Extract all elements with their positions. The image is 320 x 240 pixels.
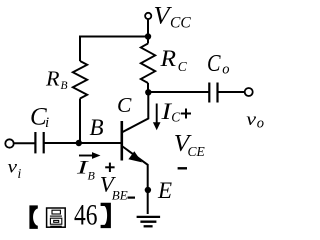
emitter arrowhead: [128, 151, 142, 162]
terminal vi: [5, 139, 13, 147]
svg-text:v: v: [246, 109, 256, 129]
node C junction: [145, 89, 151, 95]
svg-text:CC: CC: [170, 14, 191, 31]
terminal VCC: [145, 13, 151, 19]
svg-text:i: i: [45, 115, 49, 131]
svg-text:BE: BE: [112, 187, 128, 202]
svg-text:B: B: [61, 80, 68, 92]
svg-text:B: B: [90, 115, 104, 140]
node VCC junction: [145, 33, 151, 39]
svg-text:o: o: [257, 115, 264, 131]
svg-text:C: C: [171, 110, 181, 125]
capacitor Co: [208, 83, 210, 103]
wire base: [44, 142, 121, 144]
wire RB bottom lead: [79, 99, 81, 144]
wire emitter branch: [123, 147, 148, 191]
wire RB top lead: [79, 36, 81, 62]
ground: [137, 217, 161, 226]
wire top rail: [80, 36, 148, 38]
caption character tu (figure): [47, 208, 66, 227]
plus sign IC: [181, 109, 191, 119]
svg-text:C: C: [117, 93, 132, 117]
svg-text:R: R: [159, 46, 176, 71]
svg-text:C: C: [207, 51, 221, 77]
resistor RB: [73, 61, 87, 99]
terminal vo: [245, 88, 253, 96]
wire emitter to ground: [147, 190, 149, 214]
svg-text:CE: CE: [188, 144, 206, 159]
wire to vo terminal: [218, 91, 245, 93]
minus sign VCE: [178, 167, 187, 169]
wire RC top lead: [147, 37, 149, 44]
svg-text:B: B: [88, 168, 96, 182]
current arrow IB: [79, 155, 94, 157]
svg-text:o: o: [222, 61, 229, 77]
capacitor Ci: [34, 132, 36, 153]
caption bracket right: [101, 203, 111, 228]
resistor RC: [141, 44, 155, 84]
svg-text:v: v: [8, 157, 18, 177]
svg-text:C: C: [178, 59, 188, 74]
transistor Q1 bar: [121, 121, 124, 161]
svg-text:E: E: [157, 178, 172, 203]
wire output rail: [148, 91, 208, 93]
minus sign VBE: [128, 197, 136, 199]
node E junction: [145, 187, 151, 193]
node B junction: [76, 140, 82, 146]
caption bracket left: [29, 205, 37, 229]
svg-text:46: 46: [74, 198, 98, 231]
svg-text:R: R: [45, 67, 60, 91]
wire RC bottom lead: [147, 83, 149, 92]
plus sign VBE: [105, 163, 114, 172]
wire VCC lead: [147, 19, 149, 37]
wire collector branch: [123, 92, 149, 132]
wire input lead: [13, 142, 35, 144]
svg-text:i: i: [18, 166, 22, 181]
current arrow IC: [156, 104, 158, 124]
